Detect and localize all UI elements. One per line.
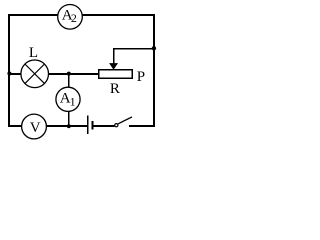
rheostat R body — [99, 70, 133, 79]
svg-text:L: L — [29, 45, 38, 61]
ammeter A1 — [56, 87, 80, 111]
wire slider feed vertical — [113, 48, 115, 65]
svg-text:P: P — [137, 69, 145, 85]
wire bottom rail left segment (to battery) — [8, 125, 88, 127]
wire bottom rail middle segment (battery to switch) — [92, 125, 114, 127]
wire slider feed horizontal — [113, 48, 155, 50]
svg-text:1: 1 — [70, 95, 76, 109]
wire right rail — [153, 14, 155, 127]
node junction right rail / slider feed — [152, 46, 156, 50]
svg-text:V: V — [30, 120, 41, 136]
switch lever — [118, 117, 132, 124]
switch pivot — [115, 124, 118, 127]
lamp L — [21, 45, 49, 88]
svg-text:R: R — [110, 81, 120, 97]
node junction left rail / lamp row — [7, 72, 11, 76]
wire middle row (lamp to rheostat) — [9, 73, 99, 75]
node junction A1 branch / bottom rail — [67, 124, 71, 128]
voltmeter V — [22, 114, 47, 139]
battery long plate — [87, 116, 89, 135]
rheostat slider arrowhead — [109, 63, 118, 70]
battery short plate — [91, 121, 93, 130]
svg-text:2: 2 — [71, 11, 77, 25]
ammeter A2 — [58, 4, 83, 29]
node junction lamp row / A1 branch — [67, 72, 71, 76]
wire bottom rail right segment (switch to right rail) — [129, 125, 155, 127]
wire left rail — [8, 14, 10, 127]
wire top rail — [8, 14, 155, 16]
wire A1 branch — [68, 73, 70, 127]
